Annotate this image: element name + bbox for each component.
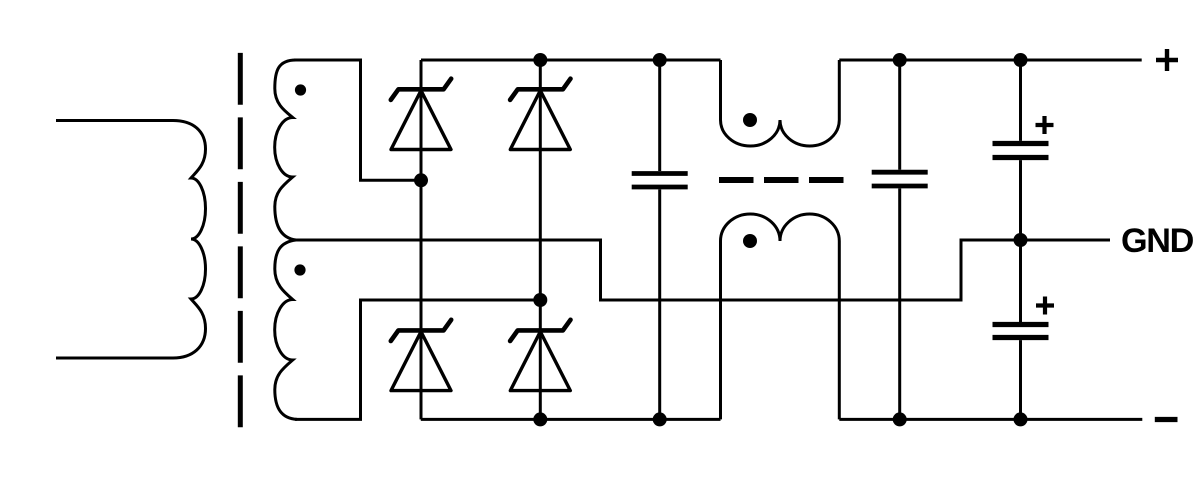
junction dot: C3 top on + rail [1014,53,1028,67]
wire rectifier column A (through D1, D3) [420,60,423,419]
label: − output terminal [1155,417,1178,422]
junction dot: C1 bottom on − rail [653,412,667,426]
capacitor C4 (electrolytic, GND to − rail) [993,240,1049,419]
capacitor C2 (X-cap across rails) [872,60,928,419]
wire center tap [294,239,601,242]
label: + output terminal [1156,49,1178,71]
C4 plus polarity mark [1036,297,1054,315]
wire center tap jog down [599,239,602,301]
C3 plus polarity mark [1036,116,1054,134]
transformer T1 secondary winding S1 (top) [275,60,296,240]
wire − rail left segment [421,418,721,421]
L1 top winding polarity dot [743,113,757,127]
S2 polarity dot [294,264,305,275]
junction dot: C2 top on + rail [893,53,907,67]
wire S2 bottom terminal to node B [295,300,538,419]
transformer T1 core (dashed) [238,53,243,428]
transformer T1 secondary winding S2 (bottom) [275,240,297,419]
L1 core (dashed) [719,177,844,183]
svg-text:GND: GND [1121,222,1194,260]
junction dot: D2 cathode on + rail [533,53,547,67]
wire + rail left segment [421,59,721,62]
capacitor C1 (X-cap across rails) [632,60,688,419]
diode D1 (Schottky, upper left) [391,79,451,150]
S1 polarity dot [295,84,306,95]
wire ground output [960,239,1111,242]
diode D2 (Schottky, upper right) [510,79,570,150]
capacitor C3 (electrolytic, + rail to GND) [993,60,1049,240]
junction dot: D4 anode on − rail [533,412,547,426]
wire ground bus jog up [960,240,963,302]
inductor L1 common-mode choke: bottom winding [721,214,840,419]
wire rectifier column B (through D2, D4) [539,60,542,419]
node A junction dot [414,173,428,187]
junction dot: C2 bottom on − rail [893,412,907,426]
wire S1 top terminal to node A [294,60,418,180]
junction dot: C3/C4 at GND wire [1014,233,1028,247]
wire + rail right segment [839,59,1141,62]
junction dot: C1 top on + rail [653,53,667,67]
inductor L1 common-mode choke: top winding [721,60,840,146]
wire − rail right segment [839,418,1142,421]
L1 bottom winding polarity dot [743,234,757,248]
diode D3 (Schottky, lower left) [391,320,451,391]
junction dot: C4 bottom on − rail [1014,412,1028,426]
transformer T1 primary winding [56,121,206,359]
node B junction dot [533,293,547,307]
wire ground bus [599,299,961,302]
diode D4 (Schottky, lower right) [510,320,570,391]
